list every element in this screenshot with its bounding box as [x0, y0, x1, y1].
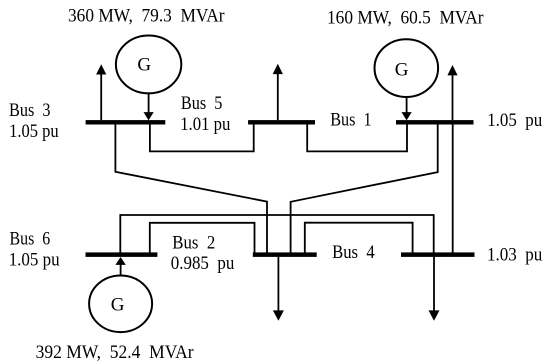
svg-text:1.03 pu: 1.03 pu — [487, 245, 542, 265]
svg-text:1.05 pu: 1.05 pu — [9, 122, 59, 142]
svg-text:392 MW, 52.4 MVAr: 392 MW, 52.4 MVAr — [36, 343, 194, 363]
svg-text:Bus 2: Bus 2 — [172, 234, 215, 254]
svg-text:Bus 3: Bus 3 — [9, 101, 51, 121]
svg-text:1.05 pu: 1.05 pu — [487, 111, 542, 131]
svg-text:1.05 pu: 1.05 pu — [9, 250, 60, 270]
svg-text:G: G — [395, 59, 409, 80]
svg-text:Bus 1: Bus 1 — [330, 111, 371, 131]
svg-text:G: G — [111, 294, 125, 315]
svg-text:160 MW, 60.5 MVAr: 160 MW, 60.5 MVAr — [327, 9, 484, 29]
svg-text:360 MW, 79.3 MVAr: 360 MW, 79.3 MVAr — [68, 6, 225, 26]
svg-text:Bus 4: Bus 4 — [332, 243, 375, 263]
svg-text:0.985 pu: 0.985 pu — [171, 254, 235, 274]
svg-text:Bus 5: Bus 5 — [181, 94, 223, 114]
svg-text:Bus 6: Bus 6 — [10, 230, 51, 250]
svg-text:1.01 pu: 1.01 pu — [180, 115, 230, 135]
svg-text:G: G — [137, 55, 151, 76]
